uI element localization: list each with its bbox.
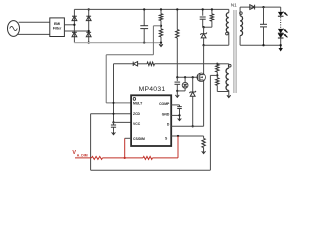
- svg-text:MP4031: MP4031: [139, 86, 166, 93]
- svg-text:A_DIM: A_DIM: [77, 154, 88, 158]
- svg-text:ZCD: ZCD: [133, 112, 141, 116]
- svg-text:COMP: COMP: [159, 102, 170, 106]
- svg-text:VCC: VCC: [133, 122, 141, 126]
- svg-text:V: V: [72, 150, 76, 156]
- svg-text:GND: GND: [162, 112, 170, 116]
- svg-text:MULT: MULT: [133, 102, 143, 106]
- svg-text:EMI: EMI: [54, 22, 60, 26]
- svg-text:Filter: Filter: [53, 27, 62, 31]
- svg-text:CS/DIM: CS/DIM: [133, 137, 145, 141]
- svg-text:N1: N1: [231, 2, 237, 7]
